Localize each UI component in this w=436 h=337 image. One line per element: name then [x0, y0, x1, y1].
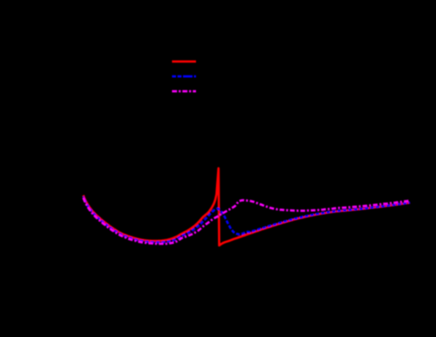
red solid curve (undamped)	[83, 168, 410, 245]
legend sample: blue dashed line	[172, 75, 196, 77]
legend sample: magenta dash-dot line	[172, 90, 196, 92]
legend sample: red solid line	[172, 60, 196, 62]
blue dashed curve (small damping)	[83, 197, 410, 243]
magenta dash-dot curve (large damping)	[83, 198, 409, 244]
